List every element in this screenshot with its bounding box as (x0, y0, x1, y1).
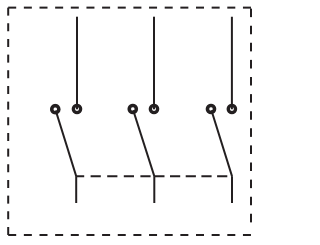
terminal contact pole 1 left (moving contact) (50, 104, 61, 115)
terminal contact pole 2 right (fixed contact) (149, 104, 160, 115)
wire: pole 3 input feed (top) (231, 17, 233, 110)
enclosure S1 (dashed boundary box of 3-pole switch) (8, 8, 251, 235)
switch blade pole 3 (open position) (211, 110, 232, 176)
switch blade pole 2 (open position) (133, 110, 154, 176)
wire: pole 2 output (bottom) (153, 176, 155, 203)
terminal contact pole 3 right (fixed contact) (227, 104, 238, 115)
terminal contact pole 1 right (fixed contact) (72, 104, 83, 115)
wire: pole 1 input feed (top) (76, 17, 78, 110)
terminal contact pole 3 left (moving contact) (206, 104, 217, 115)
wire: pole 3 output (bottom) (231, 176, 233, 203)
wire: pole 1 output (bottom) (75, 176, 77, 203)
switch blade pole 1 (open position) (56, 110, 76, 176)
mechanical linkage (dashed) pole 1 to pole 2 (76, 175, 154, 177)
terminal contact pole 2 left (moving contact) (128, 104, 139, 115)
mechanical linkage (dashed) pole 2 to pole 3 (154, 175, 232, 177)
wire: pole 2 input feed (top) (153, 17, 155, 110)
